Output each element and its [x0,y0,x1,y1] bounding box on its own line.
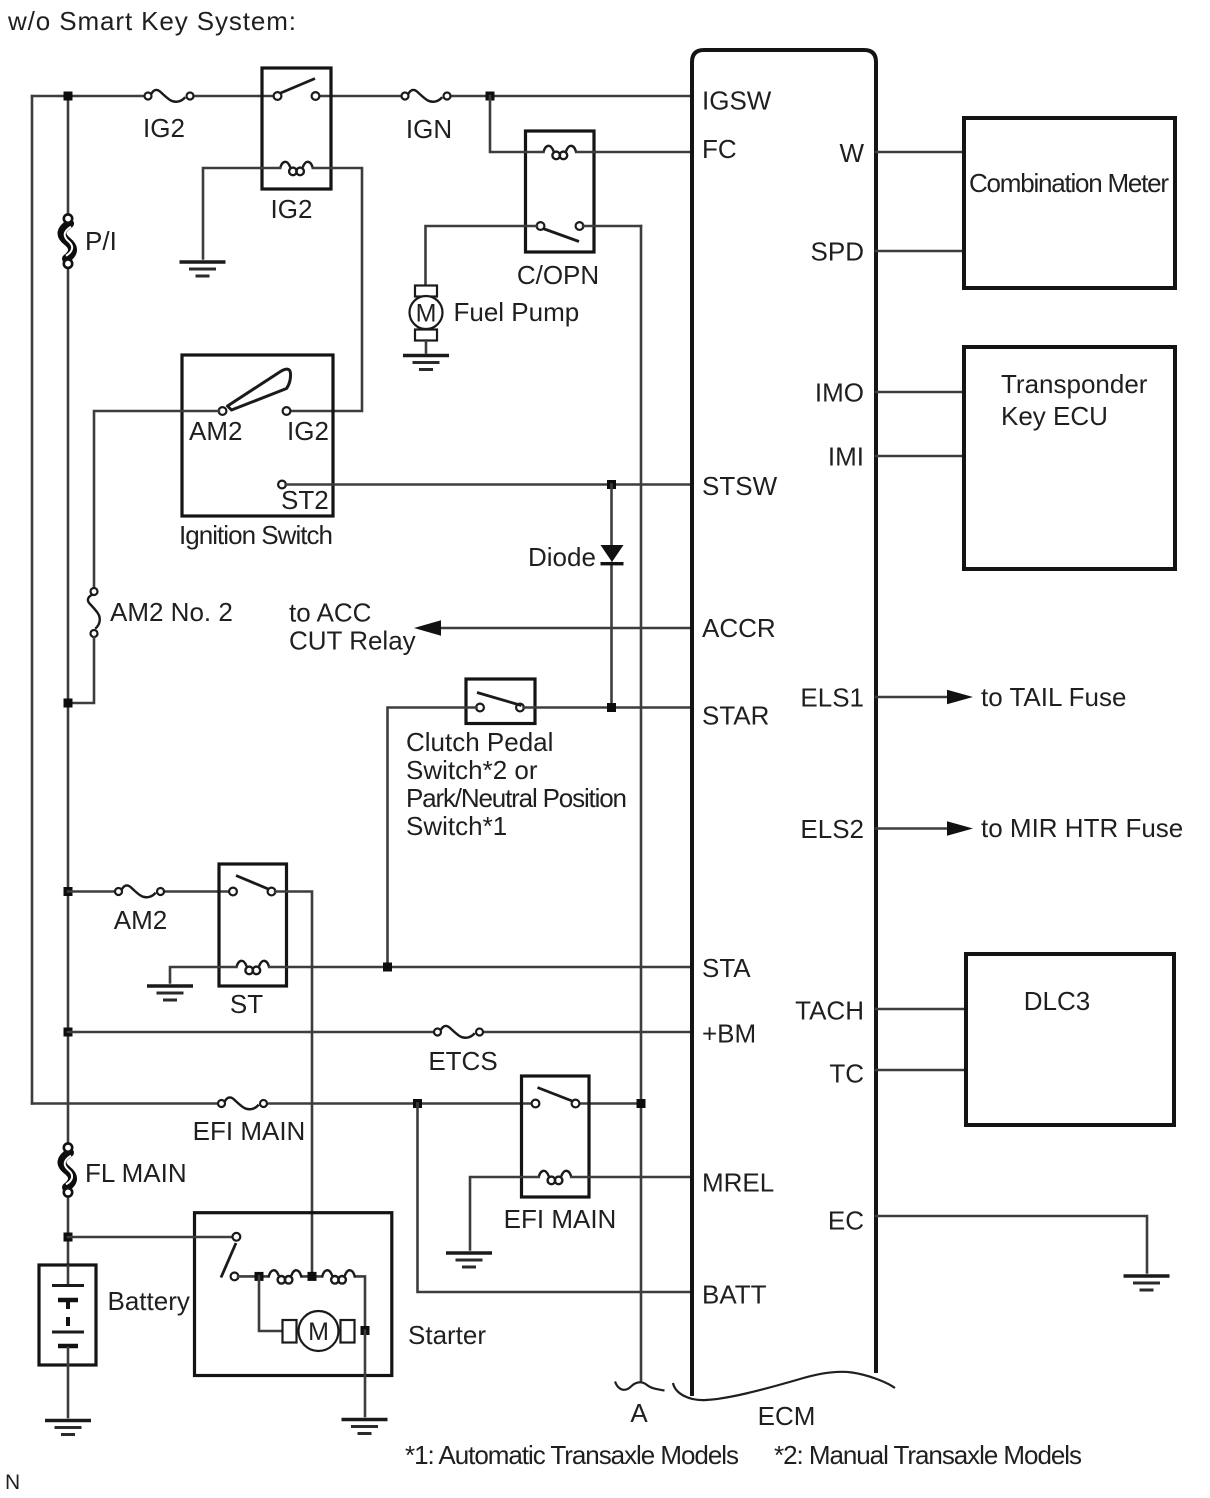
svg-text:IGSW: IGSW [702,85,772,115]
wire: clutch switch right to ECM STAR [524,706,692,709]
svg-text:Battery: Battery [108,1286,190,1316]
svg-text:A: A [630,1398,648,1428]
svg-text:*2: Manual Transaxle Models: *2: Manual Transaxle Models [774,1440,1082,1470]
wire: EC to ground [876,1216,1147,1273]
svg-text:Switch*2 or: Switch*2 or [406,755,538,785]
wire: C-OPN switch left to fuel pump [426,226,537,286]
wire: diode branch vertical [610,485,613,707]
fuse ETCS [434,1026,483,1038]
svg-text:CUT Relay: CUT Relay [289,626,416,656]
wire: +BM line through ETCS fuse to ECM [68,1031,692,1034]
junction: STA wire / clutch switch branch [383,963,392,972]
wire: starter switch feed [68,1236,233,1239]
transponder key ECU box [964,347,1175,569]
junction: battery rail / +BM line [64,1028,73,1037]
svg-text:W: W [839,138,864,168]
ignition switch box [182,355,333,516]
svg-text:ELS1: ELS1 [800,682,864,712]
ground below ST coil [147,986,193,1000]
svg-text:ST2: ST2 [281,485,329,515]
junction: EFI MAIN relay output / +B rail [637,1099,646,1108]
relay EFI MAIN switch contacts and blade [532,1088,580,1108]
relay C/OPN coil [543,146,576,159]
svg-text:Key ECU: Key ECU [1001,401,1108,431]
wire: EFI MAIN fuse line y=1103.5 [32,1102,641,1105]
starter box [195,1213,392,1376]
svg-text:ECM: ECM [758,1401,816,1431]
svg-text:ST: ST [230,989,263,1019]
svg-text:STAR: STAR [702,700,769,730]
relay ST box [219,864,287,986]
DLC3 box [966,954,1174,1125]
svg-text:EFI MAIN: EFI MAIN [504,1204,617,1234]
wire: IMO to transponder ECU [876,391,964,394]
svg-text:to ACC: to ACC [289,598,371,628]
svg-text:M: M [308,1318,329,1346]
svg-text:ETCS: ETCS [428,1046,497,1076]
svg-text:EFI MAIN: EFI MAIN [193,1116,306,1146]
wire: starter to ground [364,1331,367,1417]
junction: EFI MAIN fuse output / BATT branch [413,1099,422,1108]
wire: ACCR to ACC CUT relay with arrowhead [414,620,692,636]
wire: IG2 relay coil left to ground [203,168,280,259]
fuse IG2 [145,90,194,102]
fuse AM2 [115,885,164,897]
wire: EFI MAIN coil left to ground [470,1177,539,1250]
diode [601,545,624,565]
junction: solenoid coil1 left [255,1272,264,1281]
wire: EFI MAIN coil right to ECM MREL [572,1176,693,1179]
junction: motor right / ground branch [361,1326,370,1335]
ground below EFI MAIN coil [446,1253,492,1267]
junction: top rail / C-OPN coil feed [486,92,495,101]
svg-text:Transponder: Transponder [1001,369,1148,399]
svg-text:AM2: AM2 [189,416,242,446]
svg-text:Park/Neutral Position: Park/Neutral Position [406,783,627,813]
fusible link FL MAIN [62,1143,73,1196]
fuse EFI MAIN [218,1097,267,1109]
svg-text:IMI: IMI [828,441,864,471]
svg-text:FC: FC [702,134,737,164]
svg-text:+BM: +BM [702,1018,756,1048]
svg-text:IGN: IGN [406,114,452,144]
wire: IMI to transponder ECU [876,455,964,458]
svg-text:w/o Smart Key System:: w/o Smart Key System: [7,6,296,36]
ground below IG2 relay coil [180,262,226,276]
wire: ST coil left to ground [170,967,236,983]
wire: AM2 line to ST relay [68,890,229,893]
relay IG2 switch contacts and blade [274,79,320,100]
svg-text:TACH: TACH [795,995,864,1025]
wire: AM2 terminal left and down to AM2 No.2 fuse [94,411,219,588]
wire: top feed rail y=96 from left corner to ECM IGSW [32,95,692,98]
ground below battery [45,1421,91,1435]
svg-text:IG2: IG2 [143,113,185,143]
svg-text:AM2 No. 2: AM2 No. 2 [110,597,233,627]
wire: IG2 relay coil right down to ignition switch IG2 terminal [290,168,362,411]
junction: solenoid midpoint / ST relay feed [308,1272,317,1281]
wire: fuel pump to ground [425,341,428,353]
motor fuel pump [410,286,443,341]
relay C/OPN box [526,131,595,252]
wire: BATT branch down and right to ECM BATT [418,1104,693,1293]
motor starter M [283,1311,355,1351]
svg-text:STA: STA [702,953,751,983]
svg-text:M: M [416,300,437,328]
wire: C-OPN coil right to ECM FC [576,151,692,154]
solenoid coil 2 [322,1270,355,1283]
combination meter box [964,118,1175,288]
svg-text:BATT: BATT [702,1279,767,1309]
wire: left vertical rail x=32 down to EFI MAIN fuse line [31,96,34,1104]
connector A break mark [615,1382,665,1391]
junction: battery rail / AM2 line [64,887,73,896]
battery cells [52,1266,84,1365]
wire: ST coil right to ECM STA [269,966,692,969]
wire: W to combination meter [876,151,964,154]
svg-text:SPD: SPD [811,236,864,266]
svg-text:EC: EC [828,1205,864,1235]
junction: battery rail / AM2 No.2 branch [64,699,73,708]
svg-text:IG2: IG2 [271,194,313,224]
svg-text:to TAIL Fuse: to TAIL Fuse [981,682,1126,712]
svg-text:Combination Meter: Combination Meter [969,168,1169,198]
wire: starter solenoid series path [238,1276,365,1330]
svg-text:Diode: Diode [528,542,596,572]
svg-text:Clutch Pedal: Clutch Pedal [406,727,553,757]
junction: battery rail / starter switch feed [64,1233,73,1242]
fuse AM2 No.2 [88,588,100,637]
wire: +B vertical rail x=641 down through connector A [640,226,643,1381]
relay ST coil [236,961,269,974]
svg-text:P/I: P/I [85,226,117,256]
svg-text:TC: TC [829,1058,864,1088]
relay ST switch contacts and blade [229,876,275,896]
wire: ELS2 arrow to MIR HTR fuse [876,821,973,836]
ground below fuel pump [403,356,449,370]
ECM box [692,50,876,1396]
svg-text:STSW: STSW [702,471,778,501]
wire: battery rail x=68 (interrupted by P/I and FL MAIN links) [67,96,70,1266]
wire: ST switch output down to starter [275,892,312,1277]
solenoid coil 1 [269,1270,302,1283]
relay EFI MAIN coil [539,1171,572,1184]
wire: TACH to DLC3 [876,1008,966,1011]
switch Clutch Pedal / Park Neutral box [466,679,535,724]
battery box [39,1265,96,1365]
svg-text:IG2: IG2 [287,416,329,446]
wire: motor left brush feed [259,1276,283,1331]
junction: top rail / battery rail [64,92,73,101]
relay C/OPN switch contacts and blade [537,222,584,241]
wire: ELS1 arrow to TAIL fuse [876,690,973,705]
wire: C-OPN coil feed from top rail [490,96,543,152]
relay IG2 box [262,68,331,189]
wire: SPD to combination meter [876,250,964,253]
fuse IGN [402,90,451,102]
svg-text:ELS2: ELS2 [800,814,864,844]
junction: STAR wire / diode branch [607,703,616,712]
ground EC [1124,1276,1170,1290]
svg-text:Switch*1: Switch*1 [406,811,507,841]
svg-text:N: N [5,1471,20,1494]
svg-text:to MIR HTR Fuse: to MIR HTR Fuse [981,813,1183,843]
starter switch contacts and blade [221,1233,240,1280]
svg-text:ACCR: ACCR [702,613,776,643]
svg-text:MREL: MREL [702,1167,774,1197]
junction: STSW wire / diode branch [607,480,616,489]
svg-text:FL MAIN: FL MAIN [85,1158,187,1188]
wire: TC to DLC3 [876,1069,966,1072]
ignition switch contacts AM2 IG2 ST2 with key lever [219,369,291,488]
svg-text:C/OPN: C/OPN [517,260,599,290]
svg-text:DLC3: DLC3 [1024,986,1090,1016]
wire: battery negative to ground [67,1365,70,1417]
svg-text:Fuel Pump: Fuel Pump [454,297,580,327]
relay IG2 coil [280,162,313,175]
svg-text:AM2: AM2 [114,905,167,935]
svg-text:IMO: IMO [815,377,864,407]
wire: AM2 No.2 fuse down to battery rail [68,638,94,704]
wire: clutch switch left down to STA line [388,708,477,968]
relay EFI MAIN box [522,1076,590,1197]
ECM bottom break wavy line [673,1372,895,1400]
fusible link P/I [62,214,73,267]
svg-text:Starter: Starter [408,1320,486,1350]
svg-text:Ignition Switch: Ignition Switch [179,520,333,550]
wire: ST2 terminal to ECM STSW [286,483,692,486]
clutch switch contacts and blade [476,693,524,712]
ground below starter [342,1420,388,1434]
svg-text:*1: Automatic Transaxle Models: *1: Automatic Transaxle Models [405,1440,739,1470]
wire: C-OPN switch right to +B vertical rail x=641 [583,225,641,228]
